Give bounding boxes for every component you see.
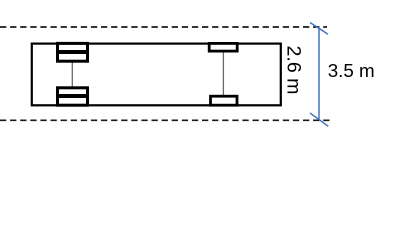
top dashed road edge line <box>0 26 327 28</box>
top dimension tick <box>310 23 328 35</box>
bottom dashed road edge line <box>0 119 331 121</box>
bottom dimension tick <box>310 113 328 126</box>
rear-left wheel (double) <box>58 88 88 105</box>
front-left wheel (double) <box>58 43 88 61</box>
front-right wheel <box>209 43 237 51</box>
right axle line <box>222 51 224 97</box>
rear-right wheel <box>211 96 238 105</box>
vehicle body rectangle <box>32 44 281 106</box>
svg-text:2.6 m: 2.6 m <box>283 45 305 94</box>
left axle line <box>71 61 73 88</box>
rear-left wheel middle band <box>56 94 89 98</box>
dimension line 3.5 m (blue vertical) <box>318 28 320 121</box>
svg-text:3.5 m: 3.5 m <box>328 60 375 81</box>
front-left wheel middle band <box>56 50 89 54</box>
